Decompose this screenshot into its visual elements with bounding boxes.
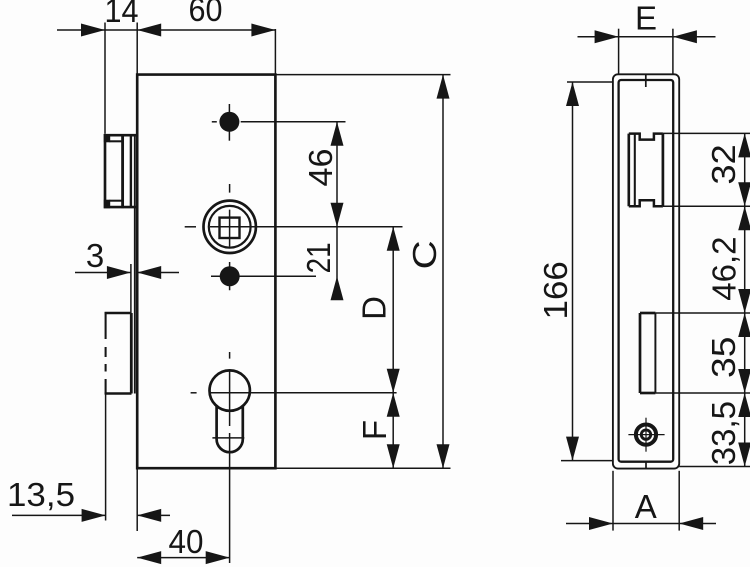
svg-text:21: 21 xyxy=(300,242,337,273)
svg-text:E: E xyxy=(635,0,657,37)
dimension 3 (faceplate thickness) xyxy=(75,237,179,313)
euro profile cylinder hole xyxy=(210,370,250,452)
dimension 60 xyxy=(137,0,275,75)
dimension 166 xyxy=(538,82,613,461)
spindle hub with square follower xyxy=(204,201,256,253)
dimension 46,2 xyxy=(706,206,750,313)
body top edge extension line xyxy=(275,74,450,76)
dimension 32 xyxy=(706,133,750,206)
lower fixing hole (filled dot) xyxy=(211,266,316,286)
faceplate top center tick xyxy=(645,74,647,87)
extension line latch cutout bottom xyxy=(663,205,750,207)
dimension C xyxy=(406,75,449,469)
svg-text:33,5: 33,5 xyxy=(705,401,742,465)
cylinder horizontal centerline xyxy=(191,392,397,394)
top fixing hole (filled dot) xyxy=(212,104,346,141)
extension line deadbolt cutout bottom xyxy=(655,392,750,394)
dimension F xyxy=(356,393,400,468)
screw hole xyxy=(628,418,664,452)
faceplate side view outer outline xyxy=(613,74,679,468)
svg-text:14: 14 xyxy=(105,0,139,29)
dimension 13,5 xyxy=(7,394,170,531)
dimension 14 xyxy=(57,0,275,134)
latch cutout in faceplate xyxy=(629,134,663,207)
right dimension column line xyxy=(744,133,746,466)
svg-text:D: D xyxy=(356,296,393,320)
faceplate front line (latch region) xyxy=(130,135,132,207)
dimension 33,5 xyxy=(705,393,750,467)
dimension A xyxy=(566,471,716,531)
svg-text:3: 3 xyxy=(86,237,104,274)
faceplate bottom center tick xyxy=(645,462,647,469)
body bottom edge extension line xyxy=(275,467,450,469)
extension line deadbolt cutout top xyxy=(655,312,750,314)
hub horizontal centerline xyxy=(185,226,403,228)
latch bolt box xyxy=(104,134,137,208)
extension line latch cutout top xyxy=(663,132,750,134)
svg-text:32: 32 xyxy=(706,144,742,184)
dimension 21 xyxy=(300,242,344,300)
svg-text:13,5: 13,5 xyxy=(7,476,75,513)
svg-text:C: C xyxy=(406,240,443,269)
faceplate side view inner outline xyxy=(619,80,674,462)
deadbolt box (hidden) xyxy=(105,312,132,394)
dimension 35 xyxy=(706,313,750,393)
dimension 46 xyxy=(302,122,344,300)
faceplate back line xyxy=(134,135,136,393)
svg-text:60: 60 xyxy=(189,0,223,28)
svg-text:F: F xyxy=(356,420,393,440)
dimension 40 (backset) xyxy=(137,523,230,564)
svg-text:40: 40 xyxy=(169,523,204,560)
svg-text:166: 166 xyxy=(538,261,575,319)
extension line plate bottom xyxy=(679,466,750,468)
svg-text:A: A xyxy=(635,488,657,525)
vertical centerline xyxy=(229,184,231,563)
dimension D xyxy=(356,227,400,393)
lock body outline xyxy=(137,75,275,469)
svg-text:35: 35 xyxy=(706,337,743,378)
deadbolt cutout in faceplate xyxy=(640,313,655,393)
svg-text:46,2: 46,2 xyxy=(706,236,743,300)
svg-text:46: 46 xyxy=(302,149,339,187)
dimension E xyxy=(578,0,716,74)
